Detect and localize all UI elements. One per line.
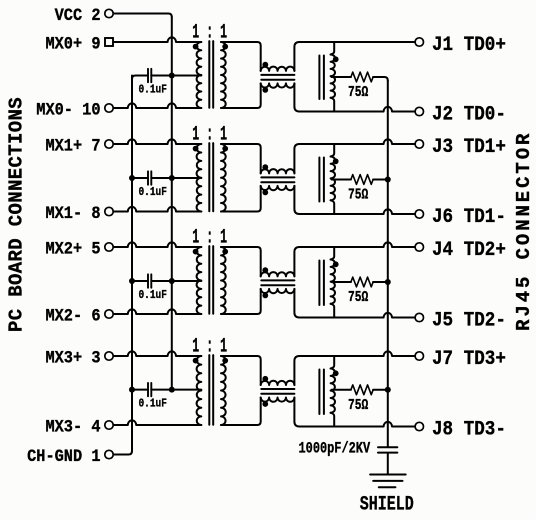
terminal J8: [415, 422, 423, 430]
svg-text:75Ω: 75Ω: [348, 289, 368, 306]
choke L1 core: [261, 75, 294, 80]
terminal pin 8 MX1-: [105, 207, 113, 215]
wire choke L4 top out: [294, 356, 299, 385]
transformer T4 secondary phase dot: [222, 358, 228, 364]
node junction CH-GND bus ch2: [129, 175, 135, 181]
svg-text:J2 TD0-: J2 TD0-: [432, 102, 506, 125]
svg-text:J5 TD2-: J5 TD2-: [432, 308, 506, 331]
wire MX3+ to T4 primary top: [114, 351, 202, 356]
label CH-GND 1: [27, 447, 100, 467]
wire T3 secondary top to choke L3: [221, 247, 261, 276]
choke L3 top phase dot: [262, 267, 268, 273]
svg-text:0.1uF: 0.1uF: [139, 398, 167, 411]
resistor R4 75 ohm: [351, 385, 373, 395]
autotransformer A3 core: [319, 261, 324, 306]
wire to J terminal bottom ch4: [299, 422, 415, 427]
node junction VCC bus ch1: [169, 73, 175, 79]
autotransformer A1 top stub: [331, 42, 335, 55]
label VCC 2: [55, 6, 101, 26]
transformer T1 secondary winding: [221, 42, 226, 108]
svg-text:0.1uF: 0.1uF: [139, 186, 167, 199]
node junction CH-GND bus ch4: [129, 387, 135, 393]
autotransformer A3 top stub: [331, 247, 335, 260]
svg-text:J1 TD0+: J1 TD0+: [432, 33, 506, 56]
svg-text:0.1uF: 0.1uF: [139, 84, 167, 97]
wire cap C2 left plate to CH-GND bus: [132, 177, 148, 179]
wire to J terminal bottom ch2: [299, 209, 415, 214]
transformer T3 primary phase dot: [193, 249, 199, 255]
wire T4 secondary top to choke L4: [221, 356, 261, 385]
label MX3- 4: [45, 417, 100, 437]
svg-text:MX3- 4: MX3- 4: [45, 417, 100, 437]
node junction shield bus ch3: [385, 279, 391, 285]
terminal J4: [415, 243, 423, 251]
wire choke L3 bottom out: [294, 289, 299, 318]
wire choke L1 top out: [294, 42, 299, 71]
autotransformer A1 phase dot: [333, 56, 339, 62]
label 75 ohm R1: [348, 84, 368, 101]
wire cap C3 right plate to VCC bus: [151, 280, 172, 282]
label RJ45 CONNECTOR: [513, 131, 535, 331]
wire MX0- to T1 primary bottom: [114, 103, 202, 108]
wire cap C3 left plate to CH-GND bus: [132, 280, 148, 282]
capacitor C5 1000pF/2KV: [378, 447, 397, 452]
wire choke L3 top out: [294, 247, 299, 276]
label 75 ohm R3: [348, 289, 368, 306]
choke L2 bottom winding: [261, 186, 295, 190]
choke L4 top winding: [261, 381, 295, 385]
choke L4 core: [261, 389, 294, 394]
terminal pin 4 MX3-: [105, 421, 113, 429]
autotransformer A3 bottom stub: [331, 304, 335, 318]
wire T1 secondary bottom to choke L1: [221, 83, 261, 108]
choke L3 top winding: [261, 272, 295, 276]
transformer T2 primary phase dot: [193, 146, 199, 152]
capacitor C1 0.1uF: [148, 69, 151, 82]
wire cap C2 right plate to VCC bus: [151, 177, 172, 179]
label 1:1 transformer T1 ratio: [192, 21, 227, 44]
transformer T3 secondary winding: [221, 247, 226, 314]
label PC BOARD CONNECTIONS: [6, 97, 28, 332]
label MX2- 6: [45, 306, 100, 326]
terminal pin 6 MX2-: [105, 310, 113, 318]
autotransformer A4 top stub: [331, 356, 335, 369]
capacitor C4 0.1uF: [148, 383, 151, 396]
svg-text:RJ45 CONNECTOR: RJ45 CONNECTOR: [513, 131, 535, 331]
svg-text:SHIELD: SHIELD: [360, 494, 414, 517]
label J5 TD2-: [432, 308, 506, 331]
transformer T3 primary winding: [197, 247, 202, 314]
terminal pin 10 MX0-: [105, 104, 113, 112]
svg-text:MX1+ 7: MX1+ 7: [45, 136, 100, 156]
svg-text:MX0- 10: MX0- 10: [36, 100, 100, 120]
capacitor C3 0.1uF: [148, 274, 151, 287]
terminal pin 2 VCC: [105, 9, 113, 17]
wire center tap T4 primary: [172, 389, 202, 391]
transformer T3 core: [209, 246, 213, 314]
node junction VCC bus ch2: [169, 175, 175, 181]
terminal J7: [415, 352, 423, 360]
svg-text:0.1uF: 0.1uF: [139, 289, 167, 302]
label MX0+ 9: [45, 34, 100, 54]
terminal pin 7 MX1+: [105, 140, 113, 148]
label MX0- 10: [36, 100, 100, 120]
wire MX3- to T4 primary bottom: [114, 420, 202, 425]
svg-text:75Ω: 75Ω: [348, 84, 368, 101]
wire T1 secondary top to choke L1: [221, 42, 261, 71]
label 75 ohm R4: [348, 396, 368, 413]
autotransformer A3 phase dot: [333, 261, 339, 267]
label J4 TD2+: [432, 238, 506, 261]
wire shield bus lower: [387, 453, 389, 474]
choke L3 core: [261, 280, 294, 285]
transformer T2 primary winding: [197, 144, 202, 212]
label J8 TD3-: [432, 417, 506, 440]
transformer T1 secondary phase dot: [222, 44, 228, 50]
wire R1 to shield bus: [373, 77, 388, 81]
label MX2+ 5: [45, 239, 100, 259]
transformer T1 primary winding: [197, 42, 202, 108]
autotransformer A4 core: [319, 370, 324, 415]
label J2 TD0-: [432, 102, 506, 125]
transformer T4 secondary winding: [221, 356, 226, 425]
wire MX1- to T2 primary bottom: [114, 207, 202, 212]
autotransformer A2 phase dot: [333, 158, 339, 164]
label J1 TD0+: [432, 33, 506, 56]
svg-text:J7 TD3+: J7 TD3+: [432, 347, 506, 370]
svg-text:75Ω: 75Ω: [348, 186, 368, 203]
wire T2 secondary bottom to choke L2: [221, 186, 261, 212]
svg-text:PC BOARD CONNECTIONS: PC BOARD CONNECTIONS: [6, 97, 28, 332]
svg-text:MX2- 6: MX2- 6: [45, 306, 100, 326]
transformer T2 secondary phase dot: [222, 146, 228, 152]
wire MX2- to T3 primary bottom: [114, 309, 202, 314]
wire T2 secondary top to choke L2: [221, 144, 261, 173]
choke L2 bottom phase dot: [262, 190, 268, 196]
wire choke L1 bottom out: [294, 83, 299, 111]
choke L2 core: [261, 177, 294, 182]
terminal pin 5 MX2+: [105, 243, 113, 251]
wire center tap T2 primary: [172, 177, 202, 179]
resistor R1 75 ohm: [351, 72, 373, 82]
wire shield bus upper: [387, 81, 389, 447]
terminal pin 9 MX0+ (square): [105, 38, 113, 46]
wire to J terminal top ch4: [299, 351, 415, 356]
label J7 TD3+: [432, 347, 506, 370]
transformer T4 primary phase dot: [193, 358, 199, 364]
wire MX1+ to T2 primary top: [114, 139, 202, 144]
node junction CH-GND bus ch3: [129, 278, 135, 284]
wire CH-GND bus vertical: [131, 76, 133, 452]
label 0.1uF C3: [139, 289, 167, 302]
terminal J2: [415, 107, 423, 115]
choke L3 bottom winding: [261, 289, 295, 293]
wire CH-GND to bus: [114, 451, 132, 455]
transformer T1 core: [209, 41, 213, 108]
choke L1 top winding: [261, 67, 295, 71]
wire cap C4 left plate to CH-GND bus: [132, 389, 148, 391]
wire MX0+ to T1 primary top: [114, 37, 202, 42]
autotransformer A2 bottom stub: [331, 200, 335, 214]
wire VCC to bus: [114, 14, 172, 18]
wire to J terminal top ch2: [299, 139, 415, 144]
wire A1 center tap to R1: [332, 76, 351, 78]
wire T3 secondary bottom to choke L3: [221, 289, 261, 314]
wire R2 to shield bus: [373, 179, 388, 181]
autotransformer A4 phase dot: [333, 370, 339, 376]
choke L2 top winding: [261, 169, 295, 173]
label MX1- 8: [45, 204, 100, 224]
wire A4 center tap to R4: [332, 389, 351, 391]
wire cap C1 left plate to CH-GND bus: [132, 76, 148, 80]
choke L3 bottom phase dot: [262, 293, 268, 299]
label J3 TD1+: [432, 135, 506, 158]
node junction shield bus ch4: [385, 387, 391, 393]
label 0.1uF C4: [139, 398, 167, 411]
choke L1 bottom winding: [261, 83, 295, 87]
choke L4 top phase dot: [262, 376, 268, 382]
wire to J terminal top ch3: [299, 242, 415, 247]
resistor R2 75 ohm: [351, 175, 373, 185]
autotransformer A1 bottom stub: [331, 98, 335, 112]
transformer T2 core: [209, 143, 213, 211]
choke L4 bottom winding: [261, 398, 295, 402]
svg-text:J3 TD1+: J3 TD1+: [432, 135, 506, 158]
label SHIELD: [360, 494, 414, 517]
choke L2 top phase dot: [262, 164, 268, 170]
wire center tap T1 primary: [172, 75, 202, 77]
label 0.1uF C2: [139, 186, 167, 199]
transformer T1 primary phase dot: [193, 44, 199, 50]
choke L1 bottom phase dot: [262, 87, 268, 93]
svg-text:VCC 2: VCC 2: [55, 6, 101, 26]
autotransformer A2 winding: [331, 157, 335, 201]
label 1:1 transformer T2 ratio: [192, 123, 227, 146]
terminal J1: [415, 38, 423, 46]
wire R4 to shield bus: [373, 389, 388, 391]
ground SHIELD symbol: [370, 475, 406, 488]
label J6 TD1-: [432, 205, 506, 228]
transformer T3 secondary phase dot: [222, 249, 228, 255]
svg-text:75Ω: 75Ω: [348, 396, 368, 413]
autotransformer A4 winding: [331, 369, 335, 413]
svg-text:CH-GND 1: CH-GND 1: [27, 447, 100, 467]
wire MX2+ to T3 primary top: [114, 242, 202, 247]
transformer T4 primary winding: [197, 356, 202, 425]
choke L1 top phase dot: [262, 62, 268, 68]
wire A2 center tap to R2: [332, 179, 351, 181]
terminal pin 3 MX3+: [105, 352, 113, 360]
wire to J terminal bottom ch3: [299, 313, 415, 318]
svg-text:MX2+ 5: MX2+ 5: [45, 239, 100, 259]
wire cap C1 right plate to VCC bus: [151, 75, 172, 77]
choke L4 bottom phase dot: [262, 401, 268, 407]
node junction VCC bus ch3: [169, 278, 175, 284]
label MX3+ 3: [45, 348, 100, 368]
wire A3 center tap to R3: [332, 281, 351, 283]
transformer T2 secondary winding: [221, 144, 226, 212]
svg-text:1000pF/2KV: 1000pF/2KV: [299, 440, 371, 458]
wire cap C4 right plate to VCC bus: [151, 389, 172, 391]
svg-text:J6 TD1-: J6 TD1-: [432, 205, 506, 228]
wire T4 secondary bottom to choke L4: [221, 398, 261, 426]
autotransformer A4 bottom stub: [331, 413, 335, 427]
node junction shield bus ch2: [385, 177, 391, 183]
autotransformer A1 winding: [331, 55, 335, 98]
label 1000pF/2KV: [299, 440, 371, 458]
terminal J5: [415, 313, 423, 321]
transformer T4 core: [209, 355, 213, 425]
label 0.1uF C1: [139, 84, 167, 97]
wire VCC bus vertical: [171, 17, 173, 390]
label MX1+ 7: [45, 136, 100, 156]
svg-text:MX0+ 9: MX0+ 9: [45, 34, 100, 54]
wire center tap T3 primary: [172, 280, 202, 282]
autotransformer A2 core: [319, 158, 324, 202]
label 1:1 transformer T3 ratio: [192, 226, 227, 249]
autotransformer A2 top stub: [331, 144, 335, 157]
node junction VCC bus ch4: [169, 387, 175, 393]
wire choke L4 bottom out: [294, 398, 299, 427]
wire choke L2 top out: [294, 144, 299, 173]
svg-text:J4 TD2+: J4 TD2+: [432, 238, 506, 261]
wire R3 to shield bus: [373, 281, 388, 283]
label 1:1 transformer T4 ratio: [192, 335, 227, 358]
label 75 ohm R2: [348, 186, 368, 203]
terminal J6: [415, 210, 423, 218]
wire to J terminal top ch1: [299, 41, 415, 43]
svg-text:MX1- 8: MX1- 8: [45, 204, 100, 224]
resistor R3 75 ohm: [351, 277, 373, 287]
terminal J3: [415, 140, 423, 148]
svg-text:MX3+ 3: MX3+ 3: [45, 348, 100, 368]
capacitor C2 0.1uF: [148, 171, 151, 184]
terminal pin 1 CH-GND: [105, 450, 113, 458]
svg-text:J8 TD3-: J8 TD3-: [432, 417, 506, 440]
wire to J terminal bottom ch1: [299, 107, 415, 112]
autotransformer A1 core: [319, 56, 324, 100]
wire choke L2 bottom out: [294, 186, 299, 214]
autotransformer A3 winding: [331, 260, 335, 304]
